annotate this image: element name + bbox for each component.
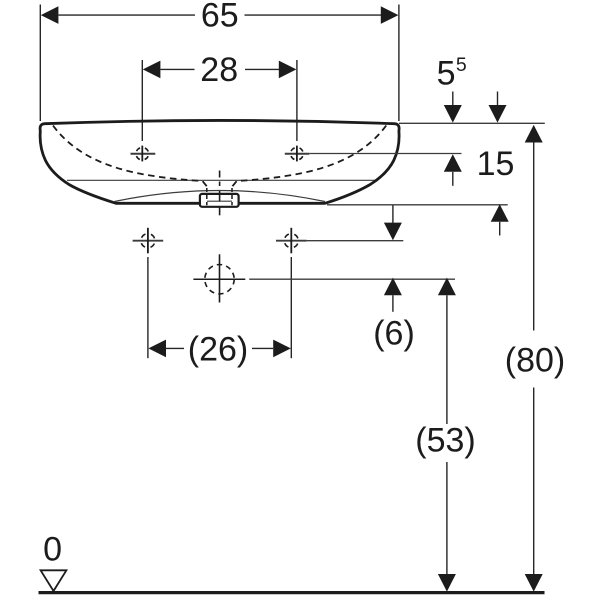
svg-text:(80): (80) (505, 342, 565, 380)
svg-text:65: 65 (201, 0, 239, 35)
svg-text:(26): (26) (188, 330, 248, 368)
svg-text:28: 28 (200, 51, 238, 89)
svg-text:0: 0 (43, 531, 62, 569)
svg-text:(6): (6) (373, 314, 415, 352)
svg-text:15: 15 (477, 145, 515, 183)
svg-text:(53): (53) (415, 421, 475, 459)
svg-text:5: 5 (456, 54, 467, 76)
svg-text:5: 5 (437, 55, 456, 93)
